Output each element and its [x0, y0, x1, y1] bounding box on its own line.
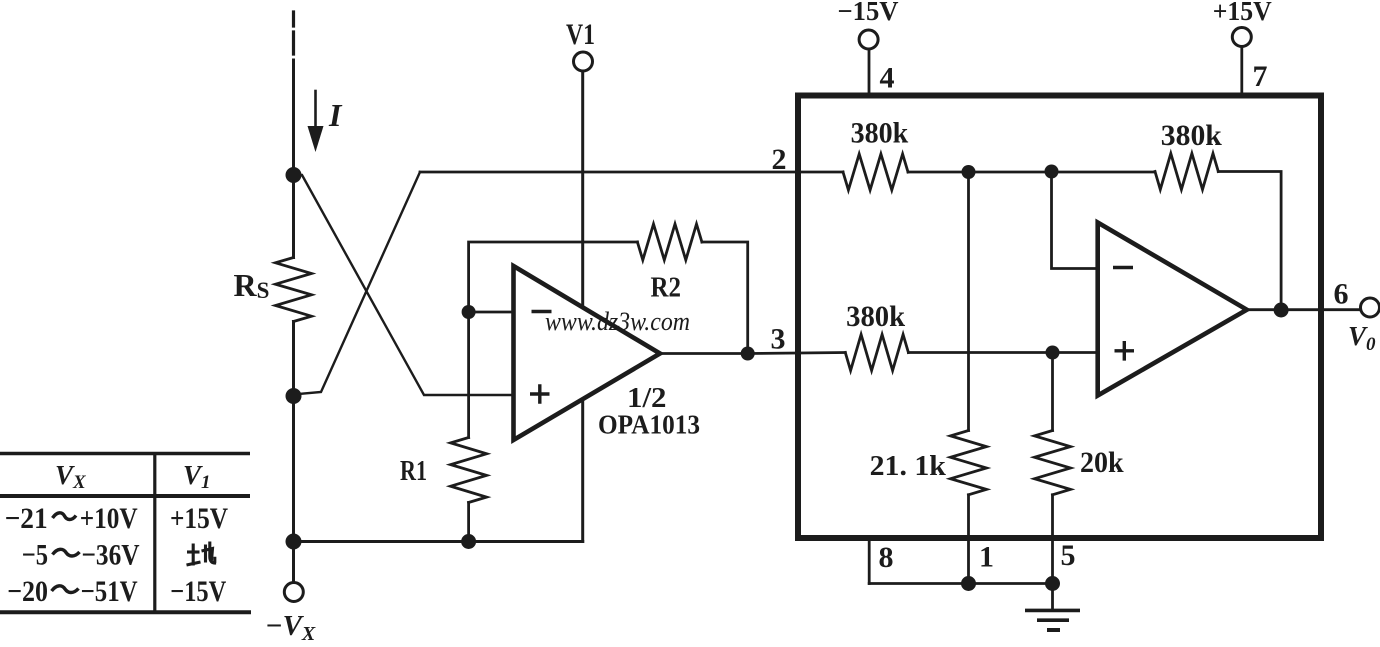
svg-text:380k: 380k — [851, 117, 909, 150]
wire 20k top lead — [1051, 353, 1054, 431]
wire 21.1k top lead — [967, 172, 970, 431]
svg-text:2: 2 — [772, 143, 787, 176]
op-amp U2 inside package — [1098, 223, 1247, 396]
svg-text:+10V: +10V — [80, 502, 138, 535]
wire 21.1k bottom lead to pin 1 — [967, 495, 970, 584]
wire R1 bottom lead to bottom rail — [467, 503, 470, 542]
terminal +15V circle — [1232, 28, 1251, 47]
wire 20k bottom lead to pin 5 — [1051, 495, 1054, 584]
wire node A to RS — [292, 175, 295, 258]
svg-text:8: 8 — [879, 541, 894, 574]
wire op2 feedback from top node down to inverting input — [1052, 172, 1098, 269]
svg-text:−20: −20 — [7, 575, 48, 608]
wire node 3 into box to 380k — [748, 353, 846, 354]
svg-text:−15V: −15V — [170, 575, 226, 608]
wire op1 feedback up and right to R2 — [469, 242, 638, 312]
svg-text:R1: R1 — [400, 456, 427, 487]
wire R1 top lead from inverting node — [467, 312, 470, 438]
wire node B down to bottom node — [292, 396, 295, 542]
node top wire to 21.1k — [962, 165, 976, 179]
svg-text:−15V: −15V — [838, 0, 899, 26]
terminal V1 circle — [574, 52, 593, 71]
node op1 inverting input — [462, 305, 476, 319]
node B — [286, 388, 302, 404]
wire 380k to plus node of op2 — [908, 351, 1097, 354]
op-amp U1a plus sign — [530, 384, 550, 404]
table of Vx vs V1 — [0, 454, 251, 613]
wire R2 to output node — [702, 242, 748, 354]
ground — [1025, 610, 1080, 630]
svg-text:+15V: +15V — [170, 502, 228, 535]
wire op1 output to node 3 — [660, 352, 748, 355]
IC package box — [798, 96, 1321, 539]
node A — [286, 167, 302, 183]
svg-text:6: 6 — [1334, 278, 1349, 311]
resistor 21.1k — [951, 431, 987, 495]
resistor R2 — [637, 224, 702, 260]
table row 2 right (Chinese: ground) — [187, 542, 217, 566]
svg-text:I: I — [328, 97, 343, 133]
wire pin 7 lead — [1240, 47, 1243, 94]
arrowhead of current I — [308, 126, 324, 152]
wire bottom rail — [294, 540, 583, 543]
svg-text:OPA1013: OPA1013 — [598, 410, 700, 440]
wire op2 output to pin 6 terminal — [1247, 308, 1361, 311]
op-amp U2 minus sign — [1113, 266, 1133, 270]
svg-text:−21: −21 — [5, 502, 48, 535]
resistor 20k — [1035, 431, 1071, 495]
wire diagonal node A to op-amp + input — [294, 175, 514, 395]
terminal -VX circle — [284, 583, 303, 602]
svg-text:−51V: −51V — [81, 575, 138, 608]
resistor R1 — [451, 438, 487, 503]
wire op1 inverting input — [469, 311, 514, 314]
node bottom-left rail — [286, 534, 302, 550]
svg-text:20k: 20k — [1080, 446, 1124, 479]
svg-text:3: 3 — [771, 323, 786, 356]
svg-text:+15V: +15V — [1213, 0, 1272, 26]
svg-text:21. 1k: 21. 1k — [870, 450, 947, 482]
terminal -15V circle — [859, 30, 878, 49]
svg-text:4: 4 — [880, 62, 895, 95]
svg-text:380k: 380k — [1161, 119, 1222, 152]
wire pin 8 lead — [868, 541, 871, 584]
node 3 output of U1a — [741, 347, 755, 361]
op-amp U1a 1/2 OPA1013 — [514, 266, 661, 440]
wire input vertical to node A — [292, 60, 295, 175]
svg-text:7: 7 — [1253, 60, 1268, 93]
svg-text:5: 5 — [1061, 539, 1076, 572]
node op2 output — [1274, 303, 1289, 318]
svg-text:R2: R2 — [651, 272, 682, 304]
wire pin 2 horizontal — [420, 171, 843, 174]
wire 380k#1 to nodes across top — [908, 171, 1155, 174]
resistor RS — [276, 258, 312, 322]
resistor 380k lower-left — [845, 335, 908, 371]
svg-text:−5: −5 — [22, 539, 48, 572]
node top wire to op2 feedback — [1045, 165, 1059, 179]
wire bottom node to -VX terminal — [292, 542, 295, 583]
resistor 380k upper-right — [1155, 154, 1218, 190]
wire pin 4 lead — [868, 49, 871, 94]
svg-text:V1: V1 — [566, 18, 595, 51]
wire 380k#2 right lead down to output node — [1218, 172, 1281, 311]
node pin 5 — [1045, 576, 1060, 591]
wire pins 8-1-5 bottom link — [869, 582, 1052, 585]
svg-text:−36V: −36V — [82, 539, 140, 572]
wire diagonal node B to pin2 line — [294, 172, 421, 395]
resistor 380k upper-left — [843, 154, 908, 190]
current arrow I — [314, 91, 317, 134]
wire V1 riser — [581, 72, 584, 542]
svg-text:www.dz3w.com: www.dz3w.com — [545, 307, 690, 336]
node plus wire to 20k — [1046, 346, 1060, 360]
node pin 1 — [961, 576, 976, 591]
wire dashed input line top left — [292, 12, 295, 54]
svg-text:1: 1 — [979, 541, 994, 574]
wire RS to node B — [292, 322, 295, 397]
node R1 bottom — [461, 534, 476, 549]
wire ground lead — [1051, 584, 1054, 609]
terminal V0 pin6 circle — [1361, 298, 1380, 317]
op-amp U1a minus sign — [532, 310, 552, 314]
svg-text:380k: 380k — [846, 300, 905, 333]
op-amp U2 plus sign — [1115, 341, 1135, 361]
